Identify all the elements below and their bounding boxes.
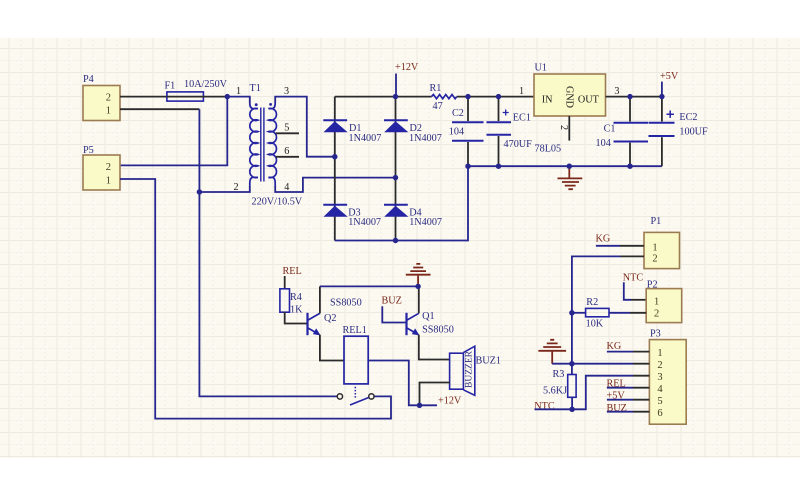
svg-text:U1: U1 (535, 63, 547, 74)
junction: C2 bottom (466, 164, 471, 169)
connector P1 (644, 216, 680, 269)
wire: KG to P1 pin 1 (596, 245, 644, 247)
pin number 4 (T1) (284, 182, 289, 193)
svg-text:5.6KJ: 5.6KJ (543, 386, 567, 397)
wire: +5V to P3 pin 5 (607, 399, 650, 401)
ground rail wire under U1 (468, 165, 662, 167)
junction: NTC node under R3 (570, 407, 575, 412)
Q1 collector wire up to ground node (418, 286, 420, 313)
junction: C1 top (628, 94, 633, 99)
pin number 2 (T1) (234, 182, 239, 193)
svg-text:104: 104 (596, 138, 611, 149)
wire: long vertical net down to R3 top node (571, 313, 573, 364)
junction: C1 bottom (628, 164, 633, 169)
junction: T1 pin3 to left leg (332, 154, 337, 159)
top +12V rail wire (335, 96, 534, 98)
wire: R2 to P2 pin 2 (609, 312, 646, 314)
svg-text:1K: 1K (290, 304, 303, 315)
svg-text:10A/250V: 10A/250V (184, 79, 228, 90)
buzzer bottom pin wire (420, 383, 451, 406)
wire: P4 pin1 to vertical rail x=199 (120, 108, 199, 110)
pin number 3 (T1) (284, 86, 289, 97)
svg-text:3: 3 (284, 86, 289, 97)
svg-text:3: 3 (614, 86, 619, 97)
svg-text:REL1: REL1 (343, 325, 367, 336)
value label 220V/10.5V (252, 197, 303, 208)
junction: R3 top node (569, 361, 574, 366)
svg-text:BUZZER: BUZZER (465, 350, 475, 388)
svg-text:1: 1 (106, 105, 111, 116)
power port +12V (top) (395, 62, 419, 97)
junction: bottom rail middle leg (393, 238, 398, 243)
svg-text:2: 2 (654, 309, 659, 320)
svg-text:104: 104 (449, 127, 464, 138)
svg-text:1N4007: 1N4007 (349, 133, 382, 144)
resistor R3 (543, 364, 576, 410)
transistor Q2 SS8050 (308, 297, 362, 335)
wire: REL1 right side to +12V node (368, 361, 419, 406)
diode D2 (384, 120, 442, 144)
wire: KG to P3 pin 1 (607, 351, 650, 353)
svg-text:SS8050: SS8050 (422, 324, 454, 335)
wire: node down to P5 pin 2 (120, 97, 227, 166)
connector P4 (83, 74, 120, 121)
wire: ground to R3 top node (552, 363, 572, 365)
wire: BUZ to P3 pin 6 (607, 411, 650, 413)
transistor Q1 SS8050 (407, 311, 454, 335)
junction: U1 GND node on ground rail (567, 164, 572, 169)
relay switch contacts (337, 394, 374, 405)
pin number 1 (T1) (236, 86, 241, 97)
svg-text:1: 1 (236, 86, 241, 97)
svg-text:+12V: +12V (395, 62, 419, 73)
net label +5V (P3 pin5) (607, 390, 626, 401)
ground symbol (flipped) above Q1 (406, 264, 431, 287)
net label REL (P3 pin4) (607, 378, 626, 389)
wire: P4 pin2 to fuse F1 input (120, 96, 167, 98)
svg-text:C2: C2 (452, 108, 464, 119)
svg-text:1: 1 (106, 175, 111, 186)
wire: BUZ stub to Q1 base (382, 306, 406, 322)
wire: R4 to Q2 base (285, 312, 307, 324)
svg-text:+5V: +5V (660, 71, 679, 82)
svg-text:1: 1 (657, 348, 662, 359)
svg-text:470UF: 470UF (504, 139, 533, 150)
junction: EC1 bottom (496, 164, 501, 169)
svg-text:P1: P1 (651, 216, 662, 227)
svg-text:R1: R1 (430, 83, 442, 94)
bridge bottom rail wire (335, 166, 468, 240)
svg-text:2: 2 (234, 182, 239, 193)
regulator U1 78L05 (534, 63, 606, 117)
wire: P3 pin 3 to NTC node (572, 376, 649, 410)
wire: NTC stub to P2 pin 1 (624, 282, 646, 300)
svg-text:3: 3 (657, 372, 662, 383)
Q2 collector wire up (319, 286, 321, 313)
svg-text:SS8050: SS8050 (330, 297, 362, 308)
svg-text:220V/10.5V: 220V/10.5V (252, 197, 303, 208)
svg-text:IN: IN (542, 94, 553, 105)
svg-text:2: 2 (657, 360, 662, 371)
svg-text:EC1: EC1 (513, 113, 531, 124)
junction: +12V stem node (393, 94, 398, 99)
svg-text:P4: P4 (83, 74, 94, 85)
U1 pin 3 wire to +5V node (606, 96, 662, 98)
svg-text:100UF: 100UF (679, 126, 708, 137)
junction: T1 pin4 to middle leg (393, 175, 398, 180)
wire: REL stub to R4 (284, 276, 286, 289)
resistor R1 (430, 83, 457, 112)
connector P2 (646, 279, 682, 322)
svg-text:5: 5 (657, 396, 662, 407)
wire: fuse F1 output to node at T1 pin 1 (203, 96, 227, 98)
net label NTC (P2) (623, 273, 644, 284)
resistor R4 (280, 289, 303, 316)
wire: R3 top node to P3 pin 2 (572, 363, 650, 365)
svg-text:4: 4 (657, 384, 663, 395)
wire: node to R2 (572, 312, 586, 314)
net label REL (283, 266, 302, 277)
U1 pin 2 stub (568, 116, 570, 141)
svg-text:KG: KG (596, 234, 611, 245)
wire: node to T1 pin 2 (199, 186, 249, 192)
svg-text:1N4007: 1N4007 (348, 217, 381, 228)
wire: T1 pin 3 down to left bridge node (275, 97, 335, 157)
svg-text:2: 2 (652, 254, 657, 265)
value label 78L05 (535, 144, 562, 155)
capacitor EC1 (487, 97, 533, 167)
svg-text:BUZ: BUZ (382, 295, 402, 306)
net label KG (P1) (596, 234, 611, 245)
Q1 emitter wire to buzzer top pin (419, 335, 450, 360)
svg-text:1N4007: 1N4007 (409, 133, 442, 144)
wire: NTC open end (535, 408, 573, 410)
transformer T1 (250, 83, 277, 186)
svg-text:F1: F1 (165, 81, 176, 92)
svg-text:6: 6 (657, 408, 662, 419)
junction: +5V EC2 node (659, 94, 664, 99)
svg-text:NTC: NTC (534, 401, 555, 412)
pin 6 stub (T1) (276, 146, 299, 157)
svg-text:C1: C1 (604, 124, 616, 135)
svg-text:T1: T1 (250, 83, 261, 94)
svg-text:KG: KG (607, 341, 622, 352)
net label KG (P3 pin1) (607, 341, 622, 352)
svg-text:EC2: EC2 (679, 112, 697, 123)
power port +12V (bottom) (420, 396, 462, 407)
buzzer BUZ1 (450, 346, 501, 395)
pin number 1 (U1) (519, 86, 524, 97)
value label 10A/250V (184, 79, 228, 90)
svg-text:2: 2 (106, 162, 111, 173)
svg-text:78L05: 78L05 (535, 144, 562, 155)
pin number 2 (U1, rotated) (558, 125, 569, 130)
diode D1 (323, 120, 381, 144)
power port +5V (660, 71, 679, 97)
relay coil REL1 (343, 325, 369, 399)
wire: P5 pin1 right then down to relay switch row (120, 179, 391, 419)
bridge left leg wire (334, 97, 336, 241)
ground symbol under U1 (558, 166, 583, 189)
wire: REL to P3 pin 4 (607, 387, 650, 389)
junction dots overlay (197, 94, 665, 412)
diode D3 (323, 205, 381, 228)
svg-text:1: 1 (654, 296, 659, 307)
collector rail wire to ground node (320, 285, 418, 287)
junction: EC1 top (496, 94, 501, 99)
connector P5 (83, 145, 120, 190)
capacitor EC2 (649, 97, 709, 167)
svg-text:GND: GND (564, 86, 575, 108)
svg-text:BUZ1: BUZ1 (476, 356, 501, 367)
svg-text:1: 1 (519, 86, 524, 97)
connector P3 (649, 329, 686, 425)
junction: +12V bottom node (417, 403, 422, 408)
svg-text:R3: R3 (553, 369, 565, 380)
wire: P1 pin 2 to long vertical net (572, 256, 644, 312)
net label NTC (bottom) (534, 401, 555, 412)
svg-text:P3: P3 (650, 329, 661, 340)
svg-text:2: 2 (558, 125, 569, 130)
pin 5 stub (T1) (276, 123, 299, 134)
svg-text:6: 6 (284, 146, 289, 157)
svg-text:Q1: Q1 (422, 311, 434, 322)
svg-text:REL: REL (283, 266, 302, 277)
junction: fuse output node (225, 94, 230, 99)
wire: T1 pin 4 step to middle bridge node (275, 178, 395, 192)
net label BUZ (382, 295, 402, 306)
junction: C2 top (466, 94, 471, 99)
svg-text:1: 1 (652, 242, 657, 253)
resistor R2 (586, 297, 609, 329)
svg-text:5: 5 (284, 123, 289, 134)
svg-text:Q2: Q2 (324, 313, 336, 324)
svg-text:1N4007: 1N4007 (409, 217, 442, 228)
svg-text:+12V: +12V (438, 396, 462, 407)
junction: collector ground node (416, 284, 421, 289)
bridge middle leg wire (395, 97, 397, 241)
svg-text:R4: R4 (290, 292, 302, 303)
ground symbol (flipped) near P3 (538, 340, 566, 364)
junction: T1 pin 2 node (197, 190, 202, 195)
junction: R2 left node (569, 310, 574, 315)
svg-text:R2: R2 (586, 297, 598, 308)
svg-text:2: 2 (106, 93, 111, 104)
svg-text:P5: P5 (83, 145, 94, 156)
diode D4 (384, 205, 442, 228)
svg-text:NTC: NTC (623, 273, 644, 284)
wire: node to transformer T1 pin 1 (227, 97, 250, 103)
capacitor C2 (449, 97, 484, 167)
svg-text:47: 47 (433, 101, 443, 112)
net label BUZ (P3 pin6) (607, 403, 627, 414)
Q2 emitter wire down to REL1 (320, 335, 344, 361)
capacitor C1 (596, 97, 649, 167)
fuse F1 (165, 81, 204, 102)
pin number 3 (U1) (614, 86, 619, 97)
svg-text:OUT: OUT (578, 94, 600, 105)
wire: vertical rail from P4 pin1 down through T1 pin2 node to switch left contact (199, 109, 337, 396)
svg-text:10K: 10K (586, 319, 604, 330)
